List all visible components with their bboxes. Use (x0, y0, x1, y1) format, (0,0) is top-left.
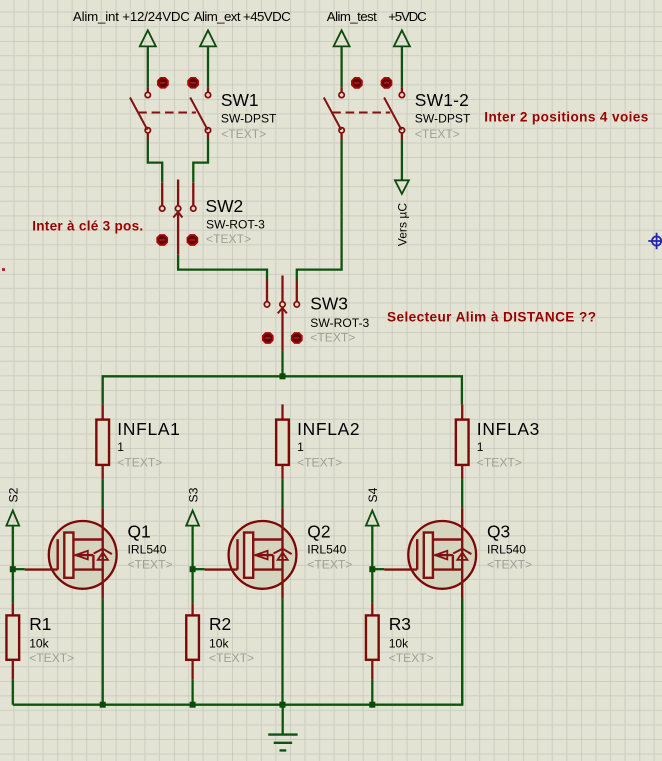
terminal arrow Vers uC (down) (395, 180, 409, 194)
svg-text:SW3: SW3 (310, 294, 348, 314)
svg-text:<TEXT>: <TEXT> (415, 127, 460, 141)
svg-text:<TEXT>: <TEXT> (128, 558, 173, 572)
svg-text:Alim_int +12/24VDC: Alim_int +12/24VDC (73, 9, 190, 24)
marker dot SW3 right (292, 333, 302, 343)
junction ground bus J2 (190, 702, 196, 708)
resistor INFLA2 (276, 420, 289, 465)
wire ground drop (282, 705, 284, 735)
transistor Q3 (IRL540 MOSFET) (384, 508, 476, 598)
svg-text:R1: R1 (29, 614, 51, 634)
svg-text:10k: 10k (29, 637, 49, 651)
wire INFLA2 to Q2 drain (281, 465, 283, 480)
svg-text:Q1: Q1 (128, 521, 151, 541)
power arrow P2 (200, 30, 216, 46)
wire SW1 pole2 bottom stub (207, 133, 209, 139)
wire power P1 to switch pin (147, 46, 149, 87)
top bus wire (103, 376, 462, 404)
svg-text:S3: S3 (186, 487, 200, 502)
svg-text:<TEXT>: <TEXT> (487, 558, 532, 572)
svg-text:IRL540: IRL540 (128, 543, 167, 557)
wire R3 top (371, 572, 373, 604)
svg-text:<TEXT>: <TEXT> (310, 331, 355, 345)
wire power P3 to switch pin (340, 46, 342, 87)
svg-text:<TEXT>: <TEXT> (209, 651, 254, 665)
marker dot SW3 left (263, 333, 273, 343)
svg-text:1: 1 (297, 440, 304, 454)
junction gate S4/R3 (369, 566, 375, 572)
rotary switch SW2 (SW-ROT-3) (160, 180, 197, 255)
svg-text:Alim_ext +45VDC: Alim_ext +45VDC (194, 9, 291, 24)
power arrow P1 (140, 30, 156, 46)
input arrow S4 (366, 511, 379, 526)
power arrow P4 (394, 30, 410, 46)
rotary switch SW3 (SW-ROT-3) (264, 276, 299, 351)
svg-text:<TEXT>: <TEXT> (221, 127, 266, 141)
svg-text:Vers µC: Vers µC (396, 203, 410, 247)
resistor INFLA1 (96, 420, 109, 465)
svg-text:<TEXT>: <TEXT> (307, 558, 352, 572)
svg-text:<TEXT>: <TEXT> (29, 651, 74, 665)
wire power P4 to switch pin (401, 46, 403, 87)
wire gate junction to Q2 gate (193, 568, 205, 570)
svg-text:SW2: SW2 (206, 196, 244, 216)
junction ground bus J3 (280, 702, 286, 708)
input arrow S3 (186, 511, 199, 526)
marker dot D3 (352, 78, 362, 88)
svg-text:Inter 2 positions 4 voies: Inter 2 positions 4 voies (484, 109, 648, 124)
wire Q1 source to ground bus (102, 598, 104, 704)
svg-text:Q2: Q2 (307, 521, 330, 541)
wire SW1-2 pole2 bottom stub (401, 133, 403, 139)
wire SW1-2 pole1 to SW3 pin3 (297, 139, 342, 279)
svg-text:SW1-2: SW1-2 (415, 90, 469, 110)
svg-text:<TEXT>: <TEXT> (297, 456, 342, 470)
wire S3 arrow down to gate junction (191, 526, 193, 570)
ground symbol (268, 735, 297, 751)
svg-text:<TEXT>: <TEXT> (389, 651, 434, 665)
wire R2 top (191, 572, 193, 604)
svg-text:Alim_test: Alim_test (327, 9, 377, 24)
svg-text:R2: R2 (209, 614, 231, 634)
wire SW3 wiper to top bus (281, 350, 283, 376)
resistor R2 (186, 615, 199, 659)
svg-text:S4: S4 (366, 487, 380, 502)
wire INFLA3 to Q3 drain (461, 465, 463, 480)
svg-text:10k: 10k (209, 637, 229, 651)
junction top bus / SW3 (280, 373, 286, 379)
wire power P2 to switch pin (207, 46, 209, 87)
svg-text:SW1: SW1 (221, 90, 259, 110)
wire R2 bottom to ground bus (191, 660, 193, 680)
wire S2 arrow down to gate junction (12, 526, 14, 570)
svg-text:+5VDC: +5VDC (388, 9, 427, 24)
switch SW1 (SW-DPST) (130, 92, 211, 133)
resistor INFLA3 (456, 420, 469, 465)
wire R1 top (12, 572, 14, 604)
marker dot D2 (188, 78, 198, 88)
wire R1 bottom to ground bus (12, 660, 14, 680)
svg-text:1: 1 (477, 440, 484, 454)
wire top bus to INFLA2 (281, 404, 283, 419)
wire S4 arrow down to gate junction (371, 526, 373, 570)
svg-text:INFLA3: INFLA3 (477, 419, 540, 439)
svg-text:Q3: Q3 (487, 521, 510, 541)
junction gate S3/R2 (190, 566, 196, 572)
transistor Q1 (IRL540 MOSFET) (25, 508, 117, 598)
svg-text:SW-ROT-3: SW-ROT-3 (206, 217, 265, 231)
svg-text:Inter à clé 3 pos.: Inter à clé 3 pos. (32, 218, 143, 233)
marker dot D1 (158, 78, 168, 88)
wire top bus to INFLA1 (102, 404, 104, 419)
svg-text:1: 1 (117, 440, 124, 454)
svg-text:10k: 10k (389, 637, 409, 651)
junction ground bus J4 (369, 702, 375, 708)
resistor R3 (366, 615, 379, 659)
wire SW1 pole2 to SW2 pin3 (193, 139, 208, 182)
svg-text:S2: S2 (7, 487, 21, 502)
blue origin marker (648, 233, 662, 250)
wire SW1-2 pole1 bottom stub (340, 133, 342, 139)
svg-text:IRL540: IRL540 (307, 543, 346, 557)
junction ground bus J1 (100, 702, 106, 708)
stray red speck left edge (2, 268, 5, 271)
input arrow S2 (6, 511, 19, 526)
svg-text:IRL540: IRL540 (487, 543, 526, 557)
svg-text:INFLA1: INFLA1 (117, 419, 180, 439)
wire Q3 source to ground bus (461, 598, 463, 704)
junction gate S2/R1 (10, 566, 16, 572)
marker dot SW2 left (157, 235, 167, 245)
wire top bus to INFLA3 (461, 404, 463, 419)
wire SW1 pole1 to SW2 pin1 (148, 139, 162, 182)
resistor R1 (6, 615, 19, 659)
wire gate junction to Q1 gate (13, 568, 25, 570)
wire SW1-2 pole2 to Vers uC arrow (401, 139, 403, 180)
svg-text:Selecteur Alim à DISTANCE ??: Selecteur Alim à DISTANCE ?? (387, 309, 596, 324)
power arrow P3 (334, 30, 350, 46)
marker dot SW2 right (187, 235, 197, 245)
svg-text:<TEXT>: <TEXT> (477, 456, 522, 470)
svg-text:<TEXT>: <TEXT> (117, 456, 162, 470)
wire Q2 source to ground bus (281, 598, 283, 704)
wire INFLA1 to Q1 drain (102, 465, 104, 480)
ground bus wire (13, 598, 462, 704)
switch SW1-2 (SW-DPST) (324, 92, 405, 133)
wire SW2 wiper to SW3 pin1 (178, 255, 267, 279)
wire SW1 pole1 bottom stub (147, 133, 149, 139)
svg-text:<TEXT>: <TEXT> (206, 232, 251, 246)
svg-text:SW-DPST: SW-DPST (221, 112, 277, 126)
svg-text:INFLA2: INFLA2 (297, 419, 360, 439)
svg-text:R3: R3 (389, 614, 411, 634)
wire gate junction to Q3 gate (372, 568, 384, 570)
svg-text:SW-ROT-3: SW-ROT-3 (310, 316, 369, 330)
svg-text:SW-DPST: SW-DPST (415, 112, 471, 126)
marker dot D4 (382, 78, 392, 88)
wire R3 bottom to ground bus (371, 660, 373, 680)
transistor Q2 (IRL540 MOSFET) (205, 508, 297, 598)
